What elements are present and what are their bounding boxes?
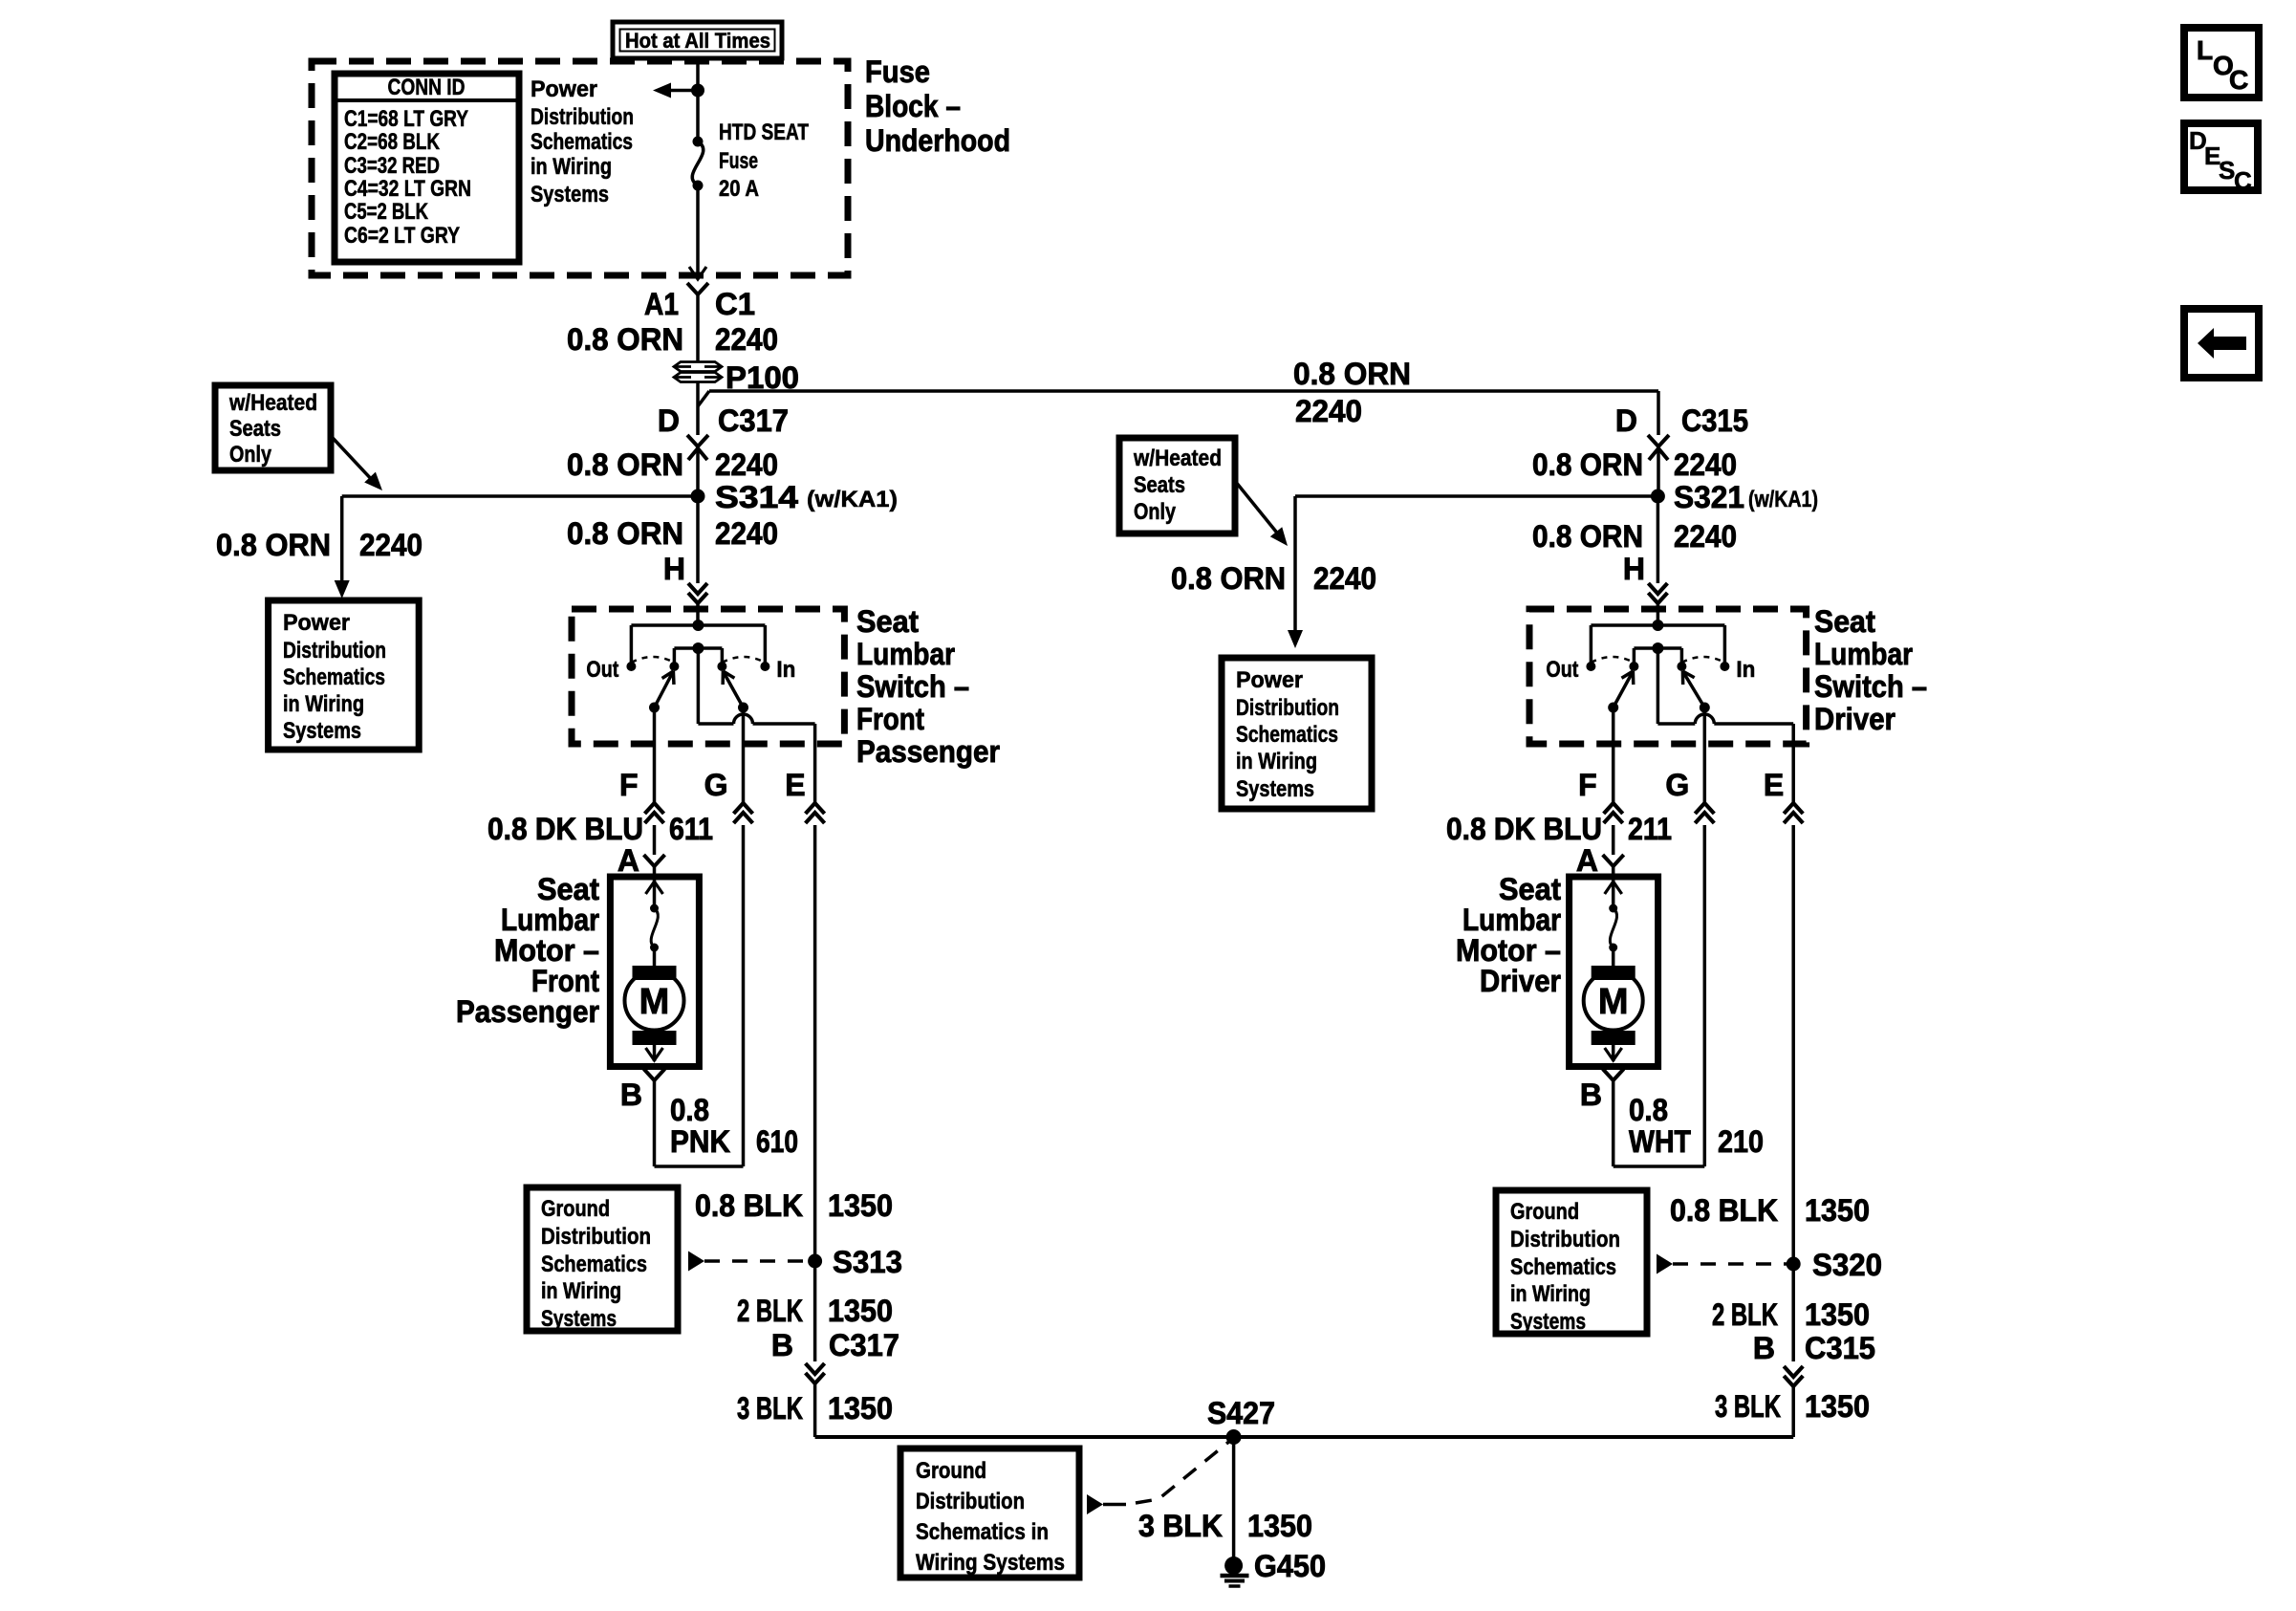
svg-text:1350: 1350 (1247, 1509, 1312, 1543)
svg-text:Switch –: Switch – (856, 669, 969, 704)
dashed box Fuse Block - Underhood (312, 61, 848, 275)
connector pin B (644, 1069, 655, 1080)
wire: F down out of switch (1612, 708, 1615, 803)
svg-text:2 BLK: 2 BLK (1712, 1297, 1778, 1332)
svg-text:Distribution: Distribution (531, 104, 634, 130)
wire: S321 branch left to power distribution (1295, 494, 1657, 498)
box: Seat Lumbar Motor (1570, 877, 1658, 1067)
dashed box Seat Lumbar Switch (572, 609, 844, 744)
box: w/Heated Seats Only (driver) (1119, 438, 1235, 533)
svg-text:Front: Front (856, 702, 924, 736)
svg-text:Schematics: Schematics (531, 129, 633, 155)
svg-text:0.8 DK BLU: 0.8 DK BLU (1446, 812, 1602, 846)
svg-text:L: L (2197, 35, 2213, 65)
svg-text:CONN ID: CONN ID (388, 75, 466, 100)
node: switch common junction (692, 620, 704, 631)
svg-text:B: B (620, 1078, 642, 1112)
svg-text:In: In (1736, 657, 1755, 683)
svg-text:0.8 ORN: 0.8 ORN (216, 528, 331, 562)
svg-text:Hot at All Times: Hot at All Times (625, 29, 770, 53)
wire: fuse to A1 connector (696, 185, 700, 279)
svg-text:2240: 2240 (1295, 394, 1362, 428)
svg-text:Underhood: Underhood (865, 123, 1010, 158)
dashed arc Out to middle-left contact (631, 657, 674, 663)
svg-text:0.8: 0.8 (1629, 1093, 1668, 1127)
svg-text:0.8 ORN: 0.8 ORN (1532, 447, 1643, 482)
wire: S314 down to switch (0.8 ORN 2240 circuit H) (696, 496, 700, 583)
svg-text:Systems: Systems (531, 182, 609, 207)
wire: F down out of switch (653, 708, 657, 803)
svg-text:20 A: 20 A (719, 176, 759, 202)
svg-text:H: H (663, 552, 685, 586)
svg-text:C: C (2229, 65, 2248, 95)
svg-text:C6=2 LT GRY: C6=2 LT GRY (344, 223, 460, 249)
box: Hot at All Times (613, 22, 782, 58)
box: w/Heated Seats Only (passenger) (215, 385, 331, 470)
box: Power Distribution Schematics in Wiring Systems (passenger) (269, 600, 420, 750)
svg-text:610: 610 (756, 1124, 798, 1159)
svg-text:1350: 1350 (1805, 1389, 1870, 1424)
svg-text:611: 611 (669, 812, 713, 846)
box: Ground Distribution Schematics in Wiring Systems (bottom) (900, 1448, 1079, 1578)
svg-text:Seats: Seats (1134, 472, 1185, 498)
svg-text:2240: 2240 (1674, 447, 1737, 482)
svg-text:0.8 ORN: 0.8 ORN (1171, 561, 1286, 596)
svg-text:H: H (1623, 552, 1645, 586)
svg-text:Passenger: Passenger (456, 994, 599, 1029)
svg-text:0.8 DK BLU: 0.8 DK BLU (487, 812, 643, 846)
svg-text:M: M (1598, 982, 1629, 1022)
svg-text:1350: 1350 (828, 1294, 893, 1328)
svg-text:D: D (1615, 403, 1637, 438)
wire: G down out of switch (1703, 708, 1707, 803)
node: In contact (1720, 662, 1729, 671)
svg-text:Seat: Seat (1814, 604, 1875, 639)
svg-text:3 BLK: 3 BLK (737, 1391, 803, 1426)
svg-text:C317: C317 (829, 1328, 899, 1362)
svg-text:in Wiring: in Wiring (1510, 1281, 1591, 1307)
svg-text:Distribution: Distribution (1236, 695, 1339, 721)
svg-text:A1: A1 (644, 287, 679, 321)
arrow from w/Heated box to wire (driver) (1235, 481, 1280, 536)
svg-text:Ground: Ground (541, 1196, 610, 1222)
node: middle contact right (717, 662, 726, 671)
svg-text:Lumbar: Lumbar (1814, 637, 1913, 671)
wire: S314 branch left to power distribution (342, 494, 698, 498)
motor M circle (1584, 971, 1643, 1031)
svg-text:WHT: WHT (1629, 1124, 1691, 1159)
switch arm F (movable contact) (649, 703, 660, 713)
node: junction at fuse block feed (691, 84, 704, 98)
svg-text:A: A (1576, 843, 1598, 878)
svg-text:G450: G450 (1254, 1549, 1326, 1583)
icon box LOC (2184, 28, 2259, 98)
svg-text:C2=68 BLK: C2=68 BLK (344, 129, 441, 155)
switch arm G (movable contact) (1700, 703, 1710, 713)
splice S427 (1226, 1429, 1242, 1445)
svg-text:1350: 1350 (828, 1188, 893, 1223)
wire + brush inside motor (1612, 877, 1615, 908)
svg-text:211: 211 (1628, 812, 1672, 846)
motor brushes (1592, 966, 1635, 980)
svg-text:S: S (2219, 156, 2235, 185)
motor M circle (625, 971, 684, 1031)
svg-text:Driver: Driver (1480, 964, 1561, 998)
svg-text:3 BLK: 3 BLK (1715, 1389, 1781, 1424)
wire: G down out of switch (742, 708, 746, 803)
box: Power Distribution Schematics in Wiring Systems (driver) (1222, 658, 1372, 809)
svg-text:S321: S321 (1674, 480, 1744, 514)
svg-text:Seat: Seat (856, 604, 919, 639)
svg-text:Motor –: Motor – (494, 933, 599, 968)
svg-text:Seats: Seats (229, 416, 281, 442)
splice S313 (808, 1254, 822, 1269)
switch arm F (movable contact) (1608, 703, 1618, 713)
splice S320 (1787, 1257, 1801, 1272)
box: Ground Distribution Schematics in Wiring Systems (passenger) (527, 1187, 678, 1331)
dashed reference arrow to S313 (688, 1252, 704, 1272)
svg-text:S314: S314 (715, 480, 798, 514)
box: Seat Lumbar Motor (610, 877, 699, 1067)
svg-text:Systems: Systems (283, 718, 361, 744)
svg-text:2240: 2240 (715, 516, 778, 551)
node: Out contact (626, 662, 636, 671)
svg-text:Only: Only (229, 442, 272, 468)
svg-text:D: D (658, 403, 680, 438)
arrow from w/Heated box to wire (333, 438, 375, 483)
svg-text:C3=32 RED: C3=32 RED (344, 153, 440, 179)
svg-text:B: B (1580, 1078, 1602, 1112)
wire: motor to B pin (653, 1045, 657, 1061)
splice S321 (1651, 490, 1665, 504)
connector P100 pass-through (674, 362, 722, 372)
fuse HTD SEAT 20 A (693, 137, 704, 147)
svg-text:Systems: Systems (1510, 1309, 1586, 1335)
svg-text:2240: 2240 (359, 528, 422, 562)
svg-text:Distribution: Distribution (916, 1489, 1025, 1514)
svg-text:M: M (639, 982, 670, 1022)
dashed arc middle-right contact to In (722, 657, 765, 663)
svg-text:2240: 2240 (715, 322, 778, 357)
svg-text:Fuse: Fuse (719, 148, 758, 174)
svg-text:Out: Out (586, 657, 618, 683)
svg-text:B: B (1753, 1331, 1775, 1365)
svg-text:Distribution: Distribution (541, 1224, 651, 1250)
svg-text:Distribution: Distribution (1510, 1227, 1620, 1252)
svg-text:0.8 ORN: 0.8 ORN (567, 447, 683, 482)
motor brushes (633, 966, 677, 980)
svg-text:C1=68 LT GRY: C1=68 LT GRY (344, 106, 468, 132)
wire: arrow to power distribution (left) (666, 89, 698, 93)
icon box back-arrow (2184, 309, 2259, 378)
svg-text:Block –: Block – (865, 89, 961, 123)
svg-text:in Wiring: in Wiring (1236, 749, 1317, 774)
svg-text:Schematics in: Schematics in (916, 1519, 1049, 1545)
svg-text:(w/KA1): (w/KA1) (1748, 487, 1818, 512)
svg-text:210: 210 (1718, 1124, 1764, 1159)
svg-text:C5=2 BLK: C5=2 BLK (344, 199, 429, 225)
svg-text:C315: C315 (1805, 1331, 1875, 1365)
svg-text:C4=32 LT GRN: C4=32 LT GRN (344, 176, 471, 202)
svg-text:2240: 2240 (1674, 519, 1737, 554)
svg-text:(w/KA1): (w/KA1) (807, 487, 898, 512)
svg-text:Front: Front (531, 964, 599, 998)
wire + brush inside motor (653, 877, 657, 908)
svg-text:3 BLK: 3 BLK (1138, 1509, 1223, 1543)
svg-text:C317: C317 (718, 403, 789, 438)
svg-text:Schematics: Schematics (283, 664, 385, 690)
wire: A1 to P100 (696, 294, 700, 361)
wire: E output from middle bar with hop over G wire (1657, 648, 1660, 724)
wire: switch middle bar to E (1652, 642, 1663, 654)
svg-text:2 BLK: 2 BLK (737, 1294, 803, 1328)
svg-text:Driver: Driver (1814, 702, 1895, 736)
svg-text:Lumbar: Lumbar (501, 903, 599, 937)
wire: S321 down to driver switch (circuit H) (1657, 496, 1660, 583)
svg-text:2240: 2240 (1313, 561, 1376, 596)
svg-text:C1: C1 (715, 287, 755, 321)
svg-text:Wiring Systems: Wiring Systems (916, 1550, 1065, 1576)
svg-text:Motor –: Motor – (1456, 933, 1561, 968)
svg-text:Seat: Seat (1499, 872, 1561, 906)
svg-text:F: F (1578, 768, 1597, 802)
node: switch common junction (1652, 620, 1663, 631)
svg-text:0.8 ORN: 0.8 ORN (567, 516, 683, 551)
svg-text:in Wiring: in Wiring (283, 691, 364, 717)
wire: motor B to switch G (0.8 WHT 210) (1612, 1080, 1615, 1166)
svg-text:Systems: Systems (541, 1306, 617, 1332)
node: Out contact (1586, 662, 1595, 671)
switch arm G (movable contact) (738, 703, 748, 713)
svg-text:A: A (617, 843, 639, 878)
splice S314 (691, 490, 705, 504)
svg-text:Schematics: Schematics (541, 1252, 647, 1277)
svg-text:Schematics: Schematics (1510, 1254, 1616, 1280)
svg-text:Schematics: Schematics (1236, 722, 1338, 748)
svg-text:In: In (776, 657, 795, 683)
svg-text:PNK: PNK (670, 1124, 730, 1159)
svg-text:HTD SEAT: HTD SEAT (719, 120, 809, 145)
svg-text:0.8: 0.8 (670, 1093, 709, 1127)
wire: switch top bar (631, 623, 765, 627)
svg-text:w/Heated: w/Heated (1133, 446, 1222, 471)
dashed box Seat Lumbar Switch (1529, 609, 1807, 744)
svg-text:S313: S313 (833, 1245, 902, 1279)
dashed arc Out to middle-left contact (1591, 657, 1634, 663)
svg-text:Ground: Ground (916, 1458, 986, 1484)
node: middle contact left (1629, 662, 1638, 671)
dashed reference arrow to S427 (1087, 1494, 1103, 1514)
svg-text:1350: 1350 (828, 1391, 893, 1426)
svg-text:Only: Only (1134, 499, 1177, 525)
svg-text:S320: S320 (1812, 1248, 1882, 1282)
svg-text:C: C (2234, 166, 2252, 195)
CONN ID table (335, 74, 519, 262)
node: In contact (760, 662, 769, 671)
svg-text:Systems: Systems (1236, 776, 1314, 802)
wire: S427 down to G450 (1232, 1437, 1236, 1557)
svg-text:in Wiring: in Wiring (541, 1278, 621, 1304)
svg-text:Switch –: Switch – (1814, 669, 1927, 704)
connector A1/C1 (fuse block output) (687, 283, 698, 294)
svg-text:0.8 ORN: 0.8 ORN (567, 322, 683, 357)
connector H into switch (688, 583, 707, 594)
ground G450 symbol (1224, 1557, 1243, 1575)
svg-text:Power: Power (531, 76, 597, 102)
svg-text:w/Heated: w/Heated (228, 390, 317, 416)
svg-text:Out: Out (1546, 657, 1578, 683)
wire: motor B to switch G (0.8 PNK 610) (653, 1080, 657, 1166)
svg-text:B: B (771, 1328, 793, 1362)
svg-text:2240: 2240 (715, 447, 778, 482)
svg-text:E: E (1764, 768, 1784, 802)
dashed reference arrow to S320 (1657, 1254, 1673, 1274)
box: Ground Distribution Schematics in Wiring Systems (driver) (1496, 1190, 1647, 1334)
svg-text:0.8 ORN: 0.8 ORN (1532, 519, 1643, 554)
svg-text:E: E (785, 768, 805, 802)
node: middle contact right (1677, 662, 1686, 671)
svg-text:Power: Power (283, 610, 350, 636)
wire: switch middle bar to E (692, 642, 704, 654)
svg-text:Lumbar: Lumbar (1462, 903, 1561, 937)
wire: ground bus to S427 (815, 1435, 1794, 1439)
wire: motor to B pin (1612, 1045, 1615, 1061)
svg-text:C315: C315 (1681, 403, 1748, 438)
wire: Hot feed down from Hot at All Times (696, 56, 700, 142)
node: middle contact left (669, 662, 679, 671)
dashed arc middle-right contact to In (1681, 657, 1724, 663)
wire: branch from below P100 to driver column (0.8 ORN 2240) (698, 391, 709, 406)
connector pin B (1603, 1069, 1614, 1080)
svg-text:F: F (619, 768, 639, 802)
svg-text:1350: 1350 (1805, 1297, 1870, 1332)
wire: E output from middle bar with hop over G wire (697, 648, 701, 724)
svg-text:in Wiring: in Wiring (531, 154, 612, 180)
svg-text:Seat: Seat (537, 872, 599, 906)
svg-text:Lumbar: Lumbar (856, 637, 955, 671)
wire: switch top bar (1591, 623, 1724, 627)
svg-text:Passenger: Passenger (856, 734, 1000, 769)
svg-text:Distribution: Distribution (283, 638, 386, 664)
wire: P100 down to C317 (696, 382, 700, 435)
icon box DESC (2184, 123, 2258, 190)
svg-text:0.8 BLK: 0.8 BLK (1670, 1193, 1778, 1228)
svg-text:0.8 ORN: 0.8 ORN (1293, 357, 1411, 391)
svg-text:Power: Power (1236, 667, 1303, 693)
wire: branch turns down at C315 (1657, 391, 1660, 435)
svg-text:S427: S427 (1207, 1396, 1275, 1430)
svg-text:G: G (704, 768, 728, 802)
svg-text:Ground: Ground (1510, 1199, 1579, 1225)
svg-text:Fuse: Fuse (865, 54, 930, 89)
svg-text:G: G (1665, 768, 1689, 802)
svg-text:1350: 1350 (1805, 1193, 1870, 1228)
svg-text:0.8 BLK: 0.8 BLK (695, 1188, 803, 1223)
